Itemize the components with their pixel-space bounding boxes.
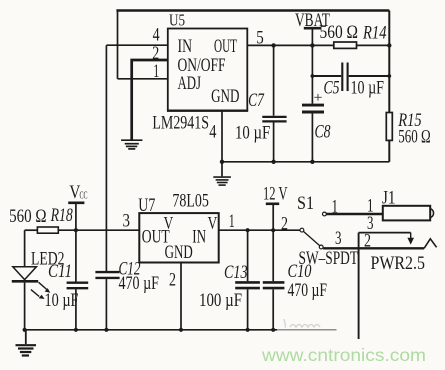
svg-text:2: 2 (364, 231, 371, 252)
svg-text:12 V: 12 V (263, 184, 288, 205)
ground bottom left (16, 330, 37, 356)
wire J1 chevron contact (424, 239, 437, 249)
svg-text:LM2941S: LM2941S (152, 113, 209, 134)
svg-text:S1: S1 (297, 193, 314, 214)
svg-text:+: + (314, 90, 323, 106)
svg-text:GND: GND (211, 86, 239, 107)
capacitor C5 wire (312, 75, 341, 77)
svg-text:10 µF: 10 µF (351, 78, 385, 99)
wire U5 GND pin down (221, 111, 223, 162)
capacitor C5 plates (341, 63, 343, 92)
capacitor C10 (263, 230, 285, 330)
svg-text:10 µF: 10 µF (45, 290, 79, 311)
resistor R15 (386, 113, 392, 141)
ground under U5 GND (213, 162, 231, 185)
svg-text:560 Ω: 560 Ω (9, 206, 46, 227)
wire right drop from top rail (388, 11, 390, 113)
wire bottom rail of top section (222, 161, 389, 163)
LED LED2 (12, 230, 51, 330)
ground under ON/OFF (121, 140, 142, 149)
svg-text:100 µF: 100 µF (199, 290, 242, 311)
wire bottom rail (23, 329, 277, 331)
svg-text:U7: U7 (138, 195, 155, 216)
wire left drop from top rail to ADJ (117, 11, 119, 79)
svg-text:1: 1 (153, 61, 159, 82)
svg-text:5: 5 (256, 27, 264, 48)
node Vcc terminal (68, 203, 84, 230)
svg-text:www.cntronics.com: www.cntronics.com (261, 345, 426, 365)
wire R15 to bottom rail (388, 140, 390, 161)
op-amp U7 box (78L05 regulator) (139, 213, 218, 262)
wire U7 GND pin 2 down (180, 263, 182, 330)
svg-text:1: 1 (332, 197, 339, 218)
svg-text:C5: C5 (324, 78, 340, 99)
svg-text:C11: C11 (48, 261, 72, 282)
svg-text:J1: J1 (382, 188, 396, 209)
svg-text:78L05: 78L05 (172, 191, 209, 212)
wire ON/OFF pin 2 (bold) (132, 60, 168, 140)
wire ADJ pin 1 (118, 78, 169, 80)
svg-text:C13: C13 (224, 262, 248, 283)
node VBAT terminal (304, 28, 321, 104)
svg-text:U5: U5 (169, 11, 185, 30)
svg-text:R14: R14 (362, 22, 387, 43)
svg-text:OUT: OUT (214, 36, 237, 57)
wire J1 pin 3 line with arrow (359, 233, 414, 245)
svg-text:560 Ω: 560 Ω (398, 126, 430, 147)
svg-text:SW–SPDT: SW–SPDT (299, 248, 359, 269)
svg-text:10 µF: 10 µF (235, 123, 270, 144)
wire switch throw 3 / J1 pin 2 (bold) (323, 247, 424, 249)
svg-text:2: 2 (281, 214, 288, 235)
svg-text:4: 4 (209, 121, 217, 142)
wire top rail (116, 9, 389, 11)
resistor R18 (37, 227, 58, 233)
svg-text:R18: R18 (50, 205, 73, 226)
capacitor C13 (235, 230, 260, 330)
capacitor C11 (67, 230, 89, 330)
svg-text:3: 3 (335, 228, 342, 249)
op-amp U5 box (LM2941S regulator) (168, 29, 248, 111)
svg-text:1: 1 (229, 211, 235, 232)
connector J1 PWR2.5 barrel (383, 206, 434, 221)
wire IN pin 4 (106, 44, 168, 46)
capacitor C8 (electrolytic) (302, 105, 324, 162)
capacitor C7 (262, 45, 286, 161)
switch S1 SW-SPDT (300, 212, 326, 249)
svg-text:CC: CC (80, 191, 88, 202)
svg-text:IN: IN (178, 36, 193, 57)
svg-text:IN: IN (192, 227, 206, 248)
wire U7 OUT pin 3 to left (58, 229, 139, 231)
svg-text:PWR2.5: PWR2.5 (371, 253, 426, 274)
svg-text:C8: C8 (315, 122, 331, 143)
node 12V terminal (266, 204, 279, 230)
wire U7 IN pin 1 to right (219, 229, 300, 231)
svg-text:GND: GND (165, 242, 193, 263)
svg-text:560 Ω: 560 Ω (320, 22, 359, 43)
faint scan artifact (284, 319, 320, 328)
svg-text:V: V (208, 213, 218, 233)
wire bottom rail faint extension (277, 329, 337, 331)
svg-text:C7: C7 (248, 90, 265, 111)
wire long vertical from IN down to C12 (105, 45, 107, 271)
wire switch throw 1 to J1 (bold) (326, 213, 383, 215)
wire R14 to right drop (357, 44, 390, 46)
svg-text:470 µF: 470 µF (119, 273, 160, 294)
svg-text:3: 3 (123, 211, 131, 232)
capacitor C12 (95, 272, 119, 330)
wire OUT pin 5 (248, 44, 334, 46)
wire R18 to LED corner (25, 229, 38, 231)
svg-text:2: 2 (169, 270, 176, 291)
svg-text:470 µF: 470 µF (288, 280, 328, 301)
wire J1 pins 2/3 vertical (358, 233, 360, 339)
resistor R14 (334, 42, 357, 48)
svg-text:ADJ: ADJ (178, 73, 202, 94)
